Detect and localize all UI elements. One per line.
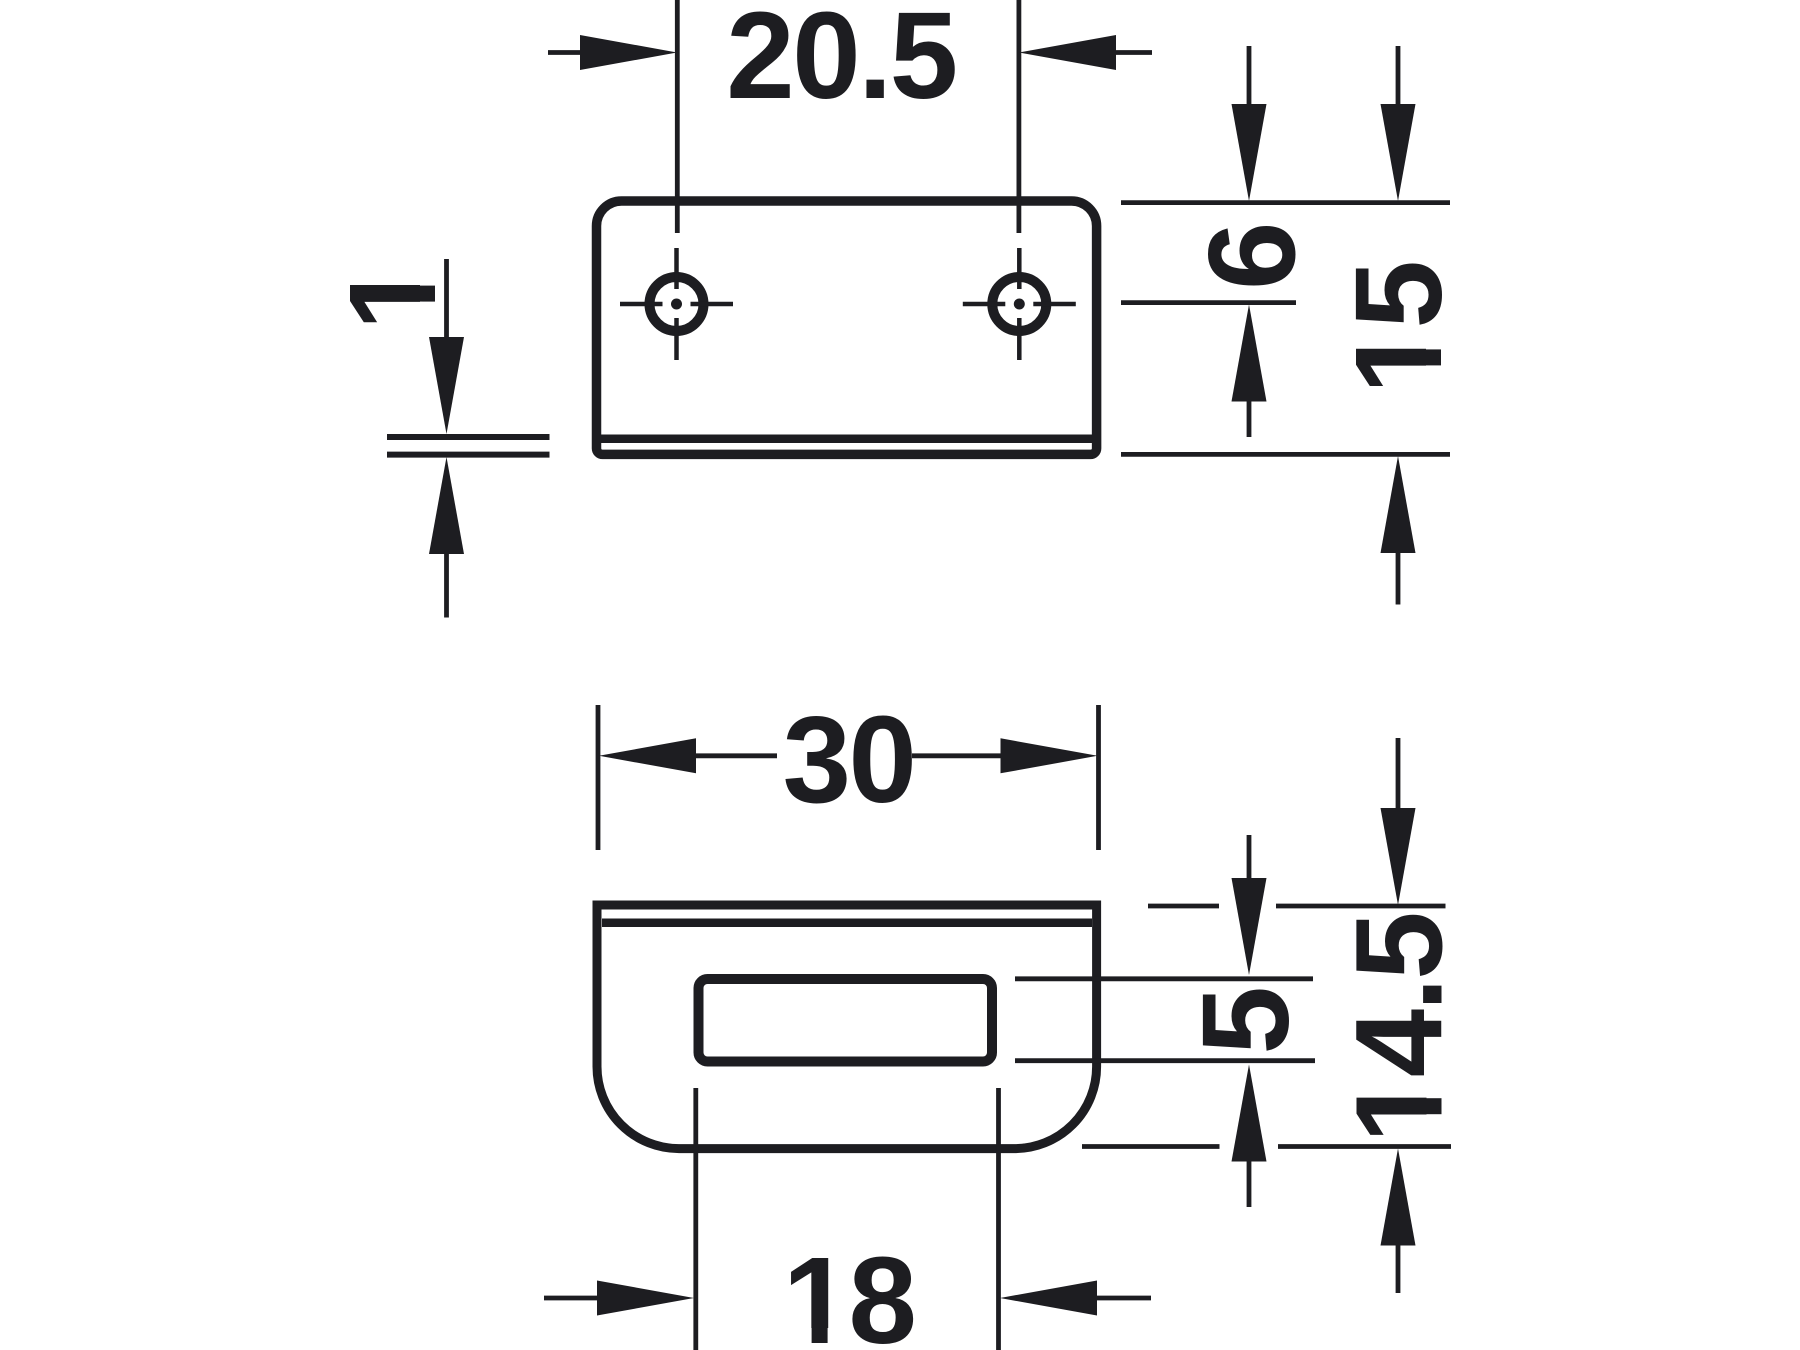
svg-text:14.5: 14.5 [1332, 914, 1469, 1143]
svg-text:6: 6 [1185, 224, 1322, 290]
svg-text:30: 30 [783, 692, 915, 829]
svg-text:20.5: 20.5 [726, 0, 955, 125]
svg-text:5: 5 [1178, 989, 1315, 1055]
svg-text:15: 15 [1331, 263, 1468, 395]
svg-text:1: 1 [325, 265, 462, 331]
